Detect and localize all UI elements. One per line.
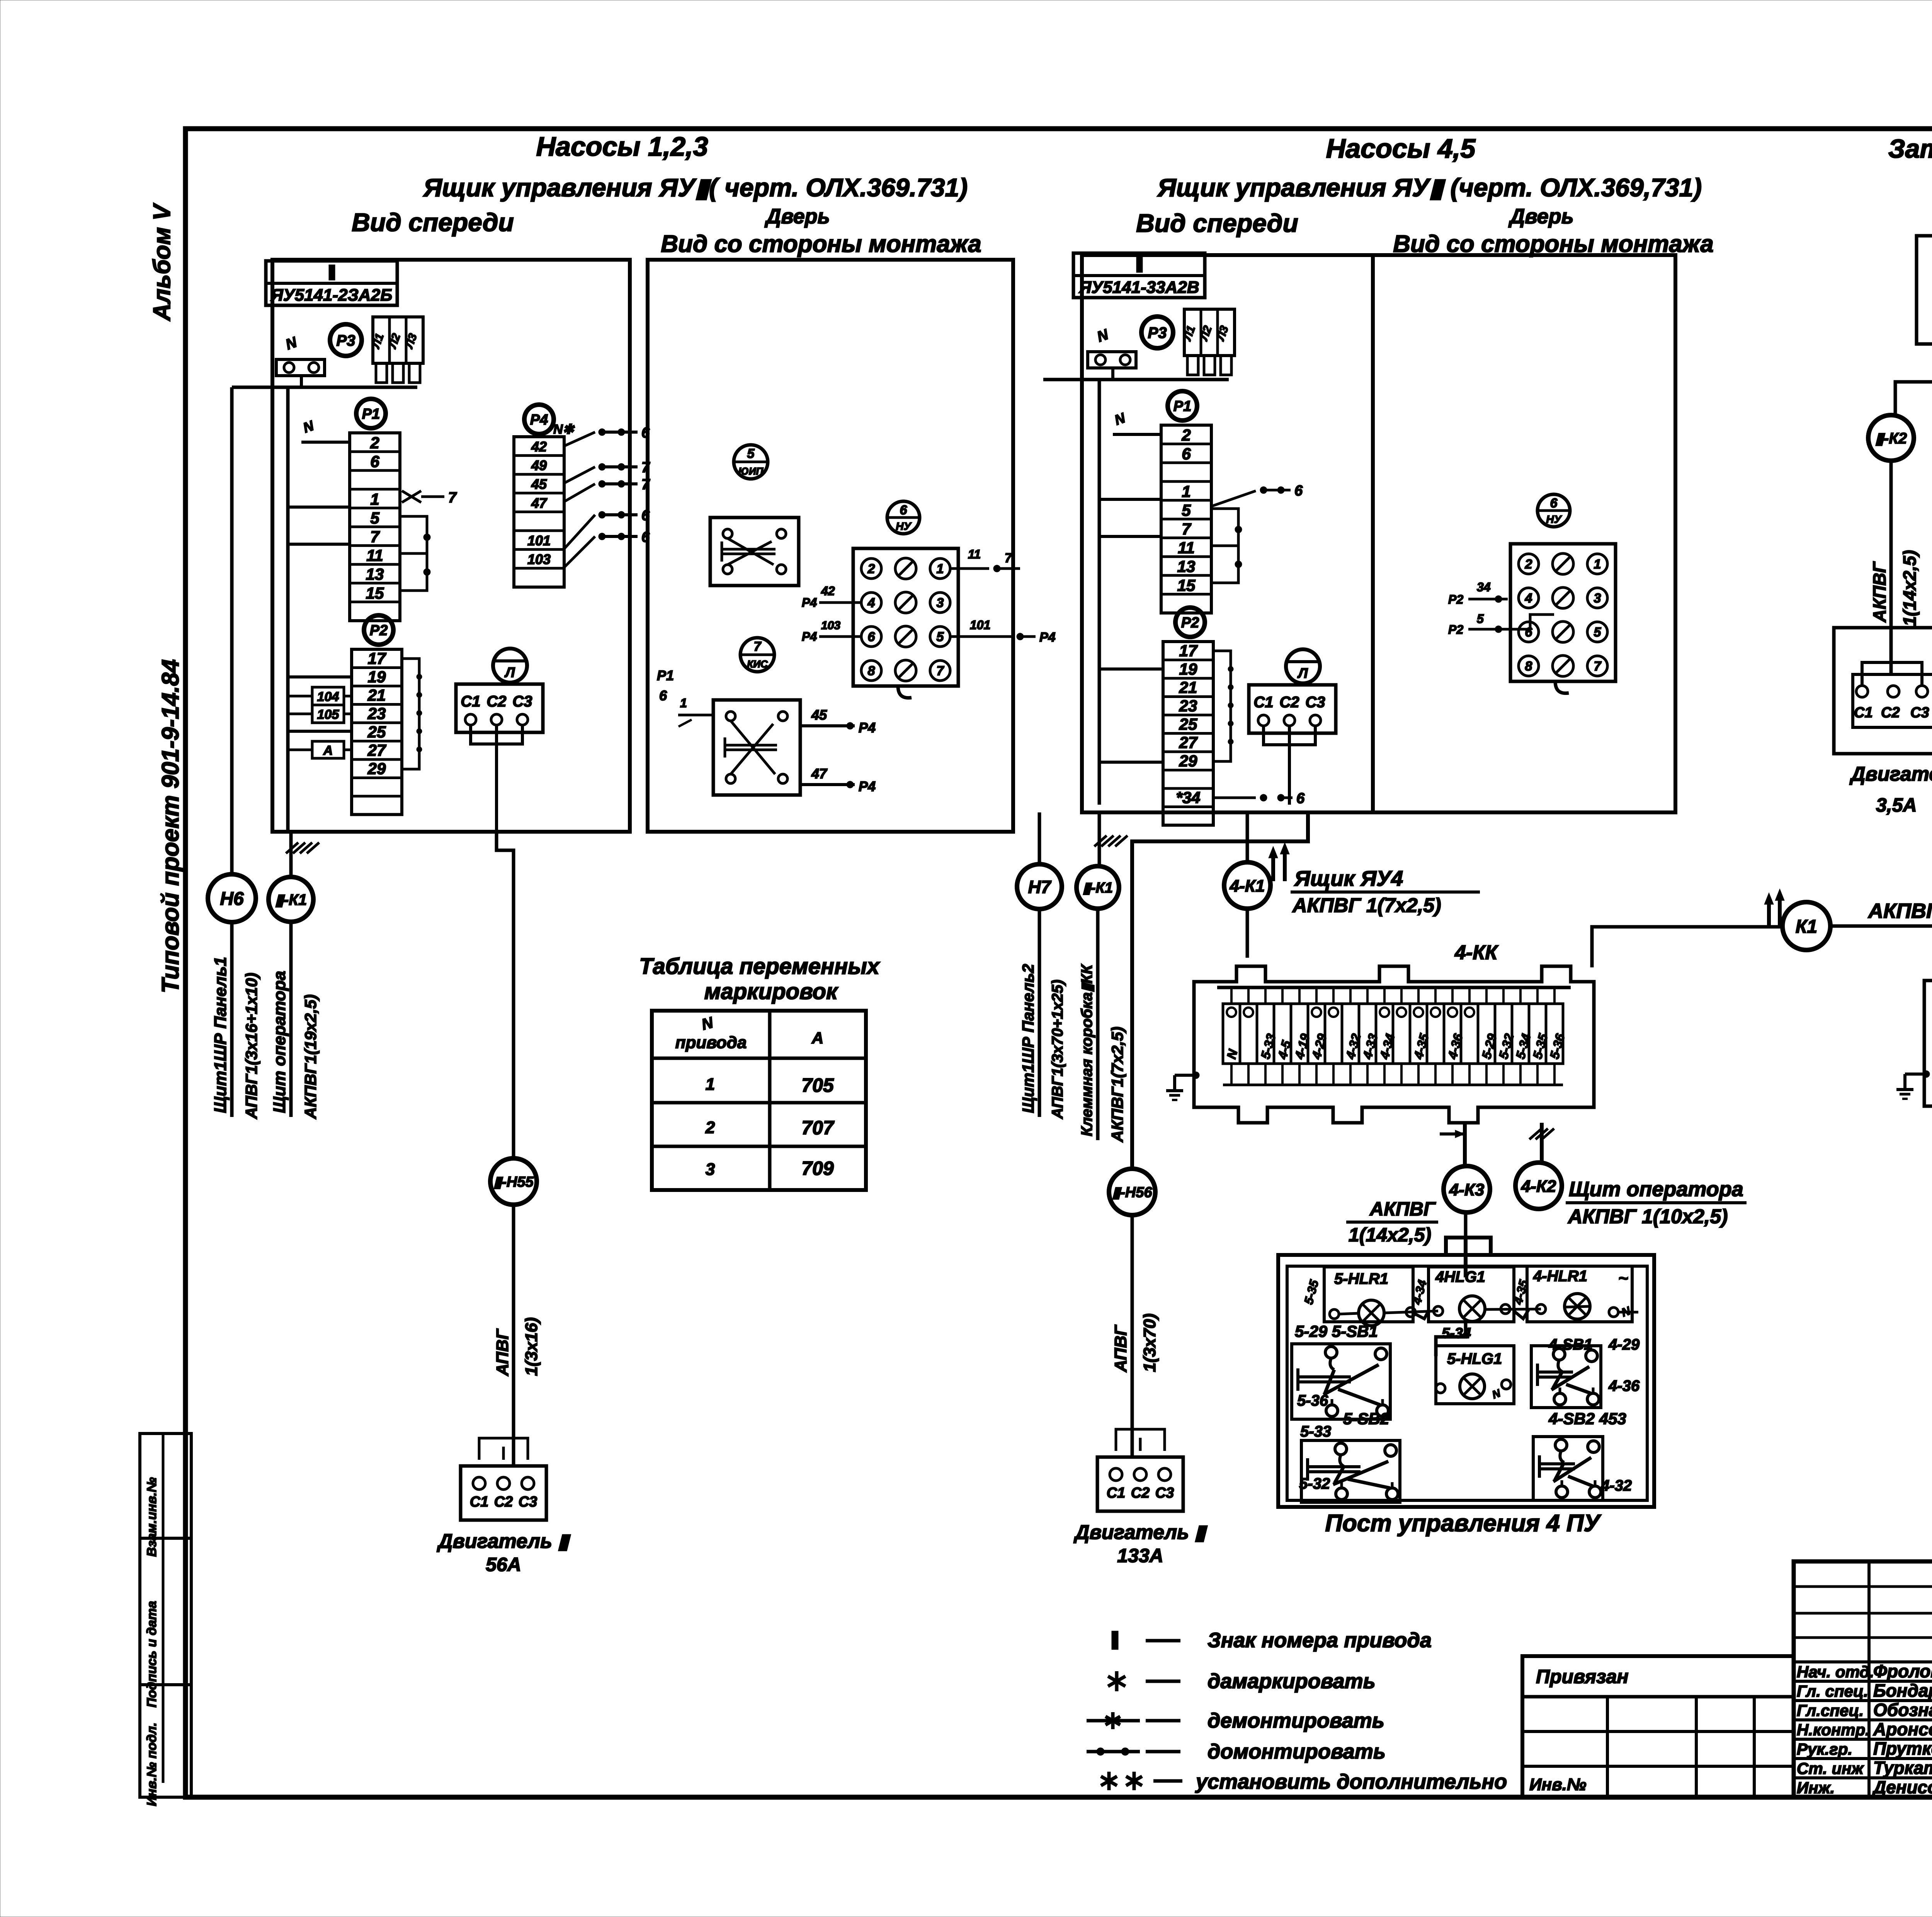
circle Н7 [1017, 864, 1062, 909]
arrows above Ящик ЯУ4 [1271, 852, 1275, 881]
svg-text:19: 19 [1179, 660, 1197, 678]
svg-text:5-HLG1: 5-HLG1 [1447, 1350, 1502, 1367]
svg-text:5: 5 [937, 630, 944, 644]
wire 4-КК to 4-К2 [1540, 1123, 1544, 1163]
svg-text:ЮИП: ЮИП [738, 465, 764, 477]
svg-text:АКПВГ1(7х2,5): АКПВГ1(7х2,5) [1108, 1027, 1126, 1142]
wire bus to row1 (panel 1) [288, 506, 350, 509]
svg-text:25: 25 [367, 723, 386, 741]
svg-text:Пост управления 4 ПУ: Пост управления 4 ПУ [1325, 1510, 1601, 1537]
svg-text:Ст. инж: Ст. инж [1797, 1759, 1864, 1777]
svg-text:Р1: Р1 [362, 406, 380, 422]
wire bus to row7 (panel 1) [288, 543, 350, 546]
svg-text:Вид спереди: Вид спереди [1136, 209, 1298, 237]
svg-text:Обозная: Обозная [1873, 1700, 1932, 1720]
svg-text:С2: С2 [1279, 694, 1299, 711]
svg-text:Взам.инв.№: Взам.инв.№ [145, 1477, 159, 1557]
svg-text:С3: С3 [1305, 694, 1325, 711]
svg-text:Р4: Р4 [802, 630, 817, 644]
svg-text:1: 1 [1182, 482, 1190, 501]
stub 11 to 7 (row1 right) (panel 2) [951, 567, 989, 570]
svg-text:Р4: Р4 [802, 596, 817, 609]
marking boxes 104 105 А (panel 1) [312, 687, 344, 705]
circle II-Н55 [490, 1158, 537, 1205]
svg-text:4-К1: 4-К1 [1230, 877, 1265, 896]
svg-text:1: 1 [1594, 557, 1601, 572]
connector block II-КК outline [1917, 220, 1932, 359]
4-КК inner rail [1217, 986, 1571, 989]
svg-text:1(14х2,5): 1(14х2,5) [1900, 550, 1920, 626]
wire 4-К1 up [1246, 812, 1249, 861]
4-КК ground [1175, 1074, 1194, 1077]
notch wire entry (ПУ4) [1446, 1238, 1491, 1255]
svg-text:29: 29 [1179, 752, 1197, 770]
svg-text:1: 1 [680, 696, 687, 710]
svg-text:~: ~ [1618, 1269, 1628, 1288]
svg-text:17: 17 [1179, 642, 1198, 660]
svg-text:Р4: Р4 [859, 778, 876, 794]
svg-text:▮-К1: ▮-К1 [275, 891, 307, 908]
svg-text:Нач. отд.: Нач. отд. [1797, 1663, 1874, 1681]
svg-text:С1: С1 [1107, 1485, 1126, 1501]
circle 6/НУ (panel 4) [1537, 494, 1570, 527]
circle Р2 (panel 3) [1175, 608, 1205, 637]
svg-text:А: А [811, 1029, 823, 1047]
5-КК ground [1905, 1073, 1924, 1076]
stub Р2 5 (row3 left) (panel 4) [1468, 615, 1554, 629]
legend демонтировать [1087, 1719, 1140, 1723]
lamp box 5-HLG1 (ПУ4) [1436, 1346, 1514, 1404]
jumper 6 from *34 (panel 3) [1213, 797, 1256, 799]
svg-text:101: 101 [527, 533, 551, 548]
motor terminals С1 С2 С3 (затвор) [1853, 674, 1932, 727]
sheet frame [185, 129, 1932, 1797]
connector N (panel 3) [1088, 352, 1136, 368]
svg-text:42: 42 [821, 584, 835, 598]
svg-text:21: 21 [367, 686, 386, 704]
svg-text:домонтировать: домонтировать [1207, 1740, 1386, 1763]
terminal strip Р1 rows 2-15 (panel 3) [1161, 425, 1211, 613]
circle 4-К3 [1444, 1166, 1490, 1212]
svg-text:13: 13 [1177, 557, 1196, 575]
panel 1 outline (Вид спереди насосы 1,2,3) [272, 260, 630, 832]
stub 101 Р4 (row3 right) (panel 2) [951, 635, 1012, 638]
jumper bracket Р2 (panel 1) [402, 659, 419, 769]
svg-text:Н7: Н7 [1028, 877, 1052, 897]
motor Двигатель II 56А [461, 1466, 546, 1520]
panel 3 outline (Вид спереди насосы 4,5) [1082, 255, 1373, 812]
svg-text:4-К2: 4-К2 [1521, 1177, 1556, 1196]
svg-text:8: 8 [1525, 659, 1532, 674]
svg-text:С2: С2 [1881, 705, 1900, 721]
svg-text:705: 705 [801, 1074, 834, 1096]
connector box 12 holes (panel 2) [853, 548, 958, 686]
svg-text:5-HLR1: 5-HLR1 [1334, 1270, 1388, 1287]
svg-text:Знак номера привода: Знак номера привода [1207, 1629, 1432, 1652]
label box ЯУ5141-33А2В (panel 3) [1073, 253, 1205, 298]
svg-text:104: 104 [317, 690, 339, 704]
wire bus to Р2 strip (panel 3) [1099, 667, 1163, 671]
svg-text:Затвор ▮ на всасывающем коллек: Затвор ▮ на всасывающем коллекторе [1888, 134, 1932, 163]
svg-text:Денисова: Денисова [1872, 1777, 1932, 1797]
wire С2 down (panel 1) [471, 725, 522, 744]
svg-text:709: 709 [801, 1158, 834, 1179]
svg-text:133А: 133А [1117, 1545, 1163, 1566]
wire II-К1 drop p3 + hatch [1098, 812, 1101, 866]
motor Двигатель II 133А [1097, 1457, 1183, 1511]
jumper bracket Р1 (panel 1) [400, 516, 427, 591]
switch 4-SB1 (ПУ4) [1531, 1346, 1601, 1408]
svg-text:34: 34 [1477, 580, 1491, 594]
terminal strip Р2 rows 17-29 (panel 3) [1163, 642, 1213, 825]
svg-text:Р3: Р3 [337, 332, 355, 349]
svg-text:2: 2 [370, 434, 379, 452]
svg-text:С2: С2 [486, 693, 506, 710]
svg-text:N✱: N✱ [553, 422, 575, 437]
svg-text:Н.контр.: Н.контр. [1797, 1721, 1870, 1739]
terminal block Л1 Л2 Л3 (panel 3) [1184, 309, 1235, 356]
svg-text:▮-Н56: ▮-Н56 [1112, 1185, 1152, 1201]
circle Р4 (panel 1) [524, 405, 554, 434]
terminal box С1 С2 С3 (panel 3) [1249, 685, 1336, 733]
svg-text:КИС: КИС [747, 658, 768, 670]
svg-text:Альбом V: Альбом V [149, 203, 175, 322]
svg-text:7: 7 [370, 528, 380, 546]
svg-text:7: 7 [754, 639, 762, 654]
svg-text:4: 4 [1525, 591, 1532, 606]
wire N to row2 (panel 1) [301, 441, 350, 444]
svg-text:Ящик управления ЯУ▮( черт. ОЛХ: Ящик управления ЯУ▮( черт. ОЛХ.369.731) [423, 173, 968, 202]
svg-text:Л: Л [1297, 665, 1308, 681]
svg-text:Фролов: Фролов [1873, 1661, 1932, 1681]
svg-text:7: 7 [1182, 520, 1191, 538]
wire bus to Р2 strip (panel 3) [1099, 761, 1163, 764]
wire АПВГ 1(3х16) [512, 1205, 515, 1465]
svg-text:Гл.спец.: Гл.спец. [1797, 1701, 1864, 1720]
wire С2 down (panel 3) [1264, 726, 1315, 745]
svg-text:4-К3: 4-К3 [1449, 1180, 1485, 1199]
svg-text:1: 1 [706, 1075, 715, 1094]
wire II-К2 down + label [1889, 461, 1893, 628]
wire N-box stub (panel 3) [1111, 368, 1114, 380]
svg-text:105: 105 [317, 707, 340, 722]
circle К1 [1782, 902, 1830, 950]
svg-text:С1: С1 [470, 1494, 489, 1510]
svg-text:К1: К1 [1796, 916, 1817, 937]
svg-text:6: 6 [1182, 445, 1191, 463]
svg-text:3: 3 [1594, 591, 1601, 606]
svg-text:привода: привода [675, 1033, 747, 1052]
connector N (panel 1) [276, 359, 325, 376]
title block outline [1794, 1561, 1932, 1797]
svg-text:7: 7 [641, 477, 650, 493]
terminal box С1 С2 С3 (panel 1) [456, 684, 543, 732]
svg-text:5-32: 5-32 [1299, 1475, 1330, 1492]
circle 4-К2 [1515, 1163, 1562, 1209]
svg-text:АКПВГ 1(10х2,5): АКПВГ 1(10х2,5) [1567, 1205, 1728, 1228]
wire bus to Р2 strip (panel 1) [288, 676, 352, 679]
svg-text:Двигатель ▮: Двигатель ▮ [1849, 763, 1932, 785]
wire 1 / II left of box [678, 714, 713, 717]
svg-text:Типовой проект 901-9-14.84: Типовой проект 901-9-14.84 [157, 659, 184, 993]
stub Р2 34 (row2 left) (panel 4) [1468, 598, 1508, 601]
svg-text:Аронсон: Аронсон [1873, 1719, 1932, 1739]
svg-text:Р2: Р2 [1448, 623, 1463, 637]
indicator lamp Л (panel 3) [1286, 649, 1320, 683]
wire N to left exit (panel 3) [1043, 378, 1229, 381]
contact box under 5/ЮИП [710, 518, 799, 586]
svg-text:5: 5 [370, 509, 379, 527]
mark X wire 7 (panel 1) [402, 491, 421, 502]
svg-text:56А: 56А [486, 1554, 521, 1575]
svg-text:АПВГ1(3х16+1х10): АПВГ1(3х16+1х10) [242, 973, 260, 1119]
left column box Инв.№ подл. [140, 1685, 191, 1797]
svg-text:6: 6 [370, 453, 379, 471]
circle II-Н56 [1109, 1169, 1155, 1215]
wire N-box stub (panel 1) [300, 376, 303, 387]
svg-text:Инв.№ подл.: Инв.№ подл. [145, 1723, 159, 1806]
svg-text:Р1: Р1 [1173, 398, 1191, 415]
circle 7/КИС [740, 638, 774, 672]
motor box Двигатель II 3,5А outer [1834, 628, 1932, 754]
svg-text:8: 8 [868, 664, 875, 678]
svg-text:6: 6 [641, 425, 650, 441]
svg-text:С3: С3 [1910, 705, 1929, 721]
connector block 5-КК outline [1924, 965, 1932, 1122]
control post outer box (ПУ4) [1278, 1255, 1654, 1507]
svg-text:Вид спереди: Вид спереди [352, 208, 514, 237]
svg-text:маркировок: маркировок [704, 979, 838, 1004]
svg-text:Гл. спец.: Гл. спец. [1797, 1682, 1868, 1700]
svg-text:Р2: Р2 [370, 623, 388, 639]
svg-text:АКПВГ 1(10х2,5): АКПВГ 1(10х2,5) [1867, 899, 1932, 923]
svg-text:11: 11 [366, 546, 383, 565]
svg-text:Р3: Р3 [1148, 324, 1167, 341]
svg-text:5-36: 5-36 [1297, 1392, 1328, 1409]
svg-text:Бондарь: Бондарь [1873, 1680, 1932, 1701]
svg-text:4-HLR1: 4-HLR1 [1533, 1268, 1587, 1285]
svg-text:Р4: Р4 [859, 720, 876, 735]
svg-text:Щит1ШР Панель1: Щит1ШР Панель1 [211, 957, 230, 1113]
svg-text:АПВГ: АПВГ [493, 1328, 512, 1376]
switch 4-SB2 (ПУ4) [1533, 1437, 1603, 1500]
svg-text:5-SB2: 5-SB2 [1343, 1410, 1389, 1428]
svg-text:С3: С3 [512, 693, 532, 710]
svg-text:6: 6 [1294, 483, 1303, 499]
box Привязан [1522, 1656, 1794, 1797]
svg-text:АКПВГ: АКПВГ [1869, 561, 1889, 623]
circle II-К1 (panel1) [269, 877, 313, 922]
wire entry down the middle (ПУ4) [1464, 1238, 1468, 1277]
svg-text:23: 23 [1179, 697, 1197, 715]
left column box Подпись и дата [140, 1538, 191, 1685]
svg-text:дамаркировать: дамаркировать [1207, 1670, 1376, 1693]
arrows before К1 [1767, 899, 1771, 925]
wire II-Н55 vertical [497, 832, 514, 1158]
lamp box 5-HLR1 (ПУ4) [1324, 1267, 1413, 1322]
wire К1 left [1592, 927, 1782, 967]
svg-text:Инж.: Инж. [1797, 1779, 1835, 1797]
svg-text:Р1: Р1 [657, 667, 674, 683]
panel 4 outline (Дверь насосы 4,5) [1373, 255, 1675, 812]
svg-text:707: 707 [801, 1117, 835, 1139]
svg-text:АКПВГ: АКПВГ [1369, 1198, 1436, 1220]
control post inner box (ПУ4) [1287, 1266, 1647, 1500]
circle Р3 (panel 1) [330, 324, 362, 356]
svg-text:Щит1ШР Панель2: Щит1ШР Панель2 [1019, 964, 1037, 1113]
svg-text:6: 6 [900, 503, 908, 518]
wire N to row2 (panel 3) [1113, 433, 1161, 436]
circle 6/НУ (panel 2) [887, 501, 920, 534]
svg-text:2: 2 [1181, 426, 1190, 444]
svg-text:Дверь: Дверь [764, 205, 830, 228]
svg-text:7: 7 [1005, 551, 1013, 565]
wire/label Щит1ШР Панель2 [1038, 909, 1041, 1117]
svg-text:С1: С1 [461, 693, 480, 710]
jumper to 6 (row5) (panel 3) [1211, 491, 1256, 506]
wire bus to row7 (panel 3) [1099, 535, 1161, 538]
svg-text:45: 45 [531, 476, 547, 492]
svg-text:АКПВГ 1(7х2,5): АКПВГ 1(7х2,5) [1292, 894, 1441, 917]
svg-text:1(3х16): 1(3х16) [522, 1317, 541, 1376]
svg-text:42: 42 [531, 439, 547, 455]
svg-text:Р2: Р2 [1448, 592, 1463, 606]
terminal block Л1 Л2 Л3 (panel 1) [373, 317, 423, 363]
wire H6 drop [230, 387, 234, 874]
svg-text:4-36: 4-36 [1608, 1377, 1640, 1394]
switch 5-SB1 (ПУ4) [1292, 1344, 1390, 1419]
label box ЯУ5141-23А2Б (panel 1) [266, 261, 397, 305]
wire bus to Р2 strip (panel 1) [288, 730, 352, 733]
wire 4-КК to 4-К3 [1463, 1123, 1467, 1166]
svg-text:4: 4 [867, 596, 875, 610]
wire 47 Р4 [800, 783, 855, 786]
svg-text:15: 15 [1177, 576, 1196, 594]
svg-text:С3: С3 [519, 1494, 537, 1510]
wire К1 right [1830, 926, 1932, 966]
left column box Взам.инв.№ [140, 1433, 191, 1538]
circle II-К2 [1868, 415, 1914, 461]
svg-text:С2: С2 [1131, 1485, 1150, 1501]
svg-text:2: 2 [705, 1118, 715, 1137]
4-КК terminal cells [1223, 1004, 1240, 1064]
svg-text:11: 11 [1178, 539, 1195, 557]
svg-text:ЯУ5141-33А2В: ЯУ5141-33А2В [1078, 278, 1199, 297]
svg-text:6: 6 [868, 630, 876, 644]
svg-text:НУ: НУ [896, 520, 912, 532]
svg-text:7: 7 [448, 490, 457, 506]
svg-text:С1: С1 [1854, 705, 1873, 721]
panel 2 outline (Дверь насосы 1,2,3) [648, 260, 1013, 832]
wire АПВГ 1(3х70) [1131, 1215, 1134, 1457]
svg-text:2: 2 [1525, 557, 1532, 572]
wire 45 Р4 [800, 724, 855, 727]
svg-text:5: 5 [1594, 625, 1602, 640]
lamp box 4HLG1 (ПУ4) [1429, 1267, 1514, 1322]
svg-text:1: 1 [370, 490, 379, 508]
svg-text:Привязан: Привязан [1536, 1666, 1629, 1687]
indicator lamp Л (panel 1) [493, 649, 527, 683]
svg-text:Клеммная коробка▮КК: Клеммная коробка▮КК [1078, 964, 1095, 1136]
svg-text:Щит оператора: Щит оператора [1569, 1178, 1743, 1201]
jumper bracket Р2 (panel 3) [1213, 651, 1231, 761]
svg-text:6: 6 [1296, 790, 1305, 807]
svg-text:3: 3 [706, 1160, 715, 1179]
circle 4-К1 [1224, 862, 1270, 909]
wire N to left exit (panel 1) [232, 386, 417, 389]
svg-text:5: 5 [747, 446, 755, 461]
svg-text:7: 7 [641, 460, 650, 476]
svg-text:103: 103 [821, 619, 840, 632]
svg-text:47: 47 [811, 766, 828, 781]
svg-text:103: 103 [527, 552, 551, 567]
lamp box 4-HLR1 (ПУ4) [1527, 1266, 1632, 1322]
svg-text:Ящик управления ЯУ▮ (черт. ОЛ: Ящик управления ЯУ▮ (черт. ОЛХ.369,731) [1157, 173, 1702, 202]
svg-text:С3: С3 [1155, 1485, 1174, 1501]
svg-text:101: 101 [970, 618, 990, 632]
svg-text:7: 7 [937, 664, 945, 678]
svg-text:2: 2 [867, 562, 875, 576]
svg-text:С2: С2 [494, 1494, 513, 1510]
terminal strip Р2 rows 17-29 (panel 1) [352, 649, 402, 815]
wire left bus (panel 1) [286, 387, 290, 832]
svg-text:Насосы 1,2,3: Насосы 1,2,3 [536, 131, 708, 162]
switch 5-SB2 (ПУ4) [1301, 1440, 1400, 1502]
svg-text:5-29 5-SB1: 5-29 5-SB1 [1295, 1322, 1378, 1340]
svg-text:А: А [323, 743, 333, 758]
title block verticals [1867, 1561, 1871, 1797]
circle Р1 (panel 1) [356, 399, 386, 428]
jumpers Р4 to 6/7 (panel 1) [564, 432, 595, 446]
svg-text:Двигатель ▮: Двигатель ▮ [1073, 1521, 1207, 1544]
svg-text:Л: Л [504, 664, 515, 680]
svg-text:15: 15 [366, 584, 384, 602]
svg-text:4-29: 4-29 [1608, 1336, 1640, 1353]
table box [652, 1011, 866, 1190]
svg-text:▮-Н55: ▮-Н55 [493, 1174, 534, 1190]
arrow on 4-К3 wire [1440, 1132, 1463, 1136]
wire/label Щит1ШР Панель1 [230, 922, 234, 1117]
svg-text:Туркат: Туркат [1873, 1758, 1932, 1778]
circle Р2 (panel 1) [364, 615, 393, 645]
contact box under 7/КИС [713, 700, 800, 795]
svg-text:1(3х70): 1(3х70) [1140, 1313, 1159, 1372]
svg-text:19: 19 [368, 668, 386, 686]
wire/label Щит оператора [289, 922, 293, 1117]
svg-text:установить дополнительно: установить дополнительно [1195, 1770, 1507, 1793]
svg-text:▮-К2: ▮-К2 [1875, 430, 1907, 447]
svg-text:7: 7 [1594, 659, 1602, 674]
circle II-К1 (panel3) [1077, 866, 1119, 909]
svg-text:6: 6 [641, 529, 650, 545]
svg-text:23: 23 [367, 705, 386, 723]
svg-text:6: 6 [659, 688, 667, 703]
svg-text:3: 3 [937, 596, 944, 610]
svg-text:29: 29 [367, 759, 386, 778]
svg-text:13: 13 [366, 565, 384, 583]
svg-text:Р4: Р4 [1039, 630, 1056, 645]
svg-text:Насосы 4,5: Насосы 4,5 [1326, 133, 1476, 163]
svg-text:6: 6 [1550, 496, 1558, 511]
lamp row wires (ПУ4) [1339, 1313, 1359, 1314]
svg-text:4-SB1: 4-SB1 [1548, 1336, 1592, 1353]
svg-text:17: 17 [368, 649, 386, 667]
svg-text:5: 5 [1182, 501, 1191, 519]
svg-text:Рук.гр.: Рук.гр. [1797, 1740, 1852, 1758]
svg-text:Р4: Р4 [530, 412, 548, 428]
wire II-КК to II-К2 [1895, 359, 1932, 415]
wire/label Клеммная коробка [1096, 909, 1100, 1140]
